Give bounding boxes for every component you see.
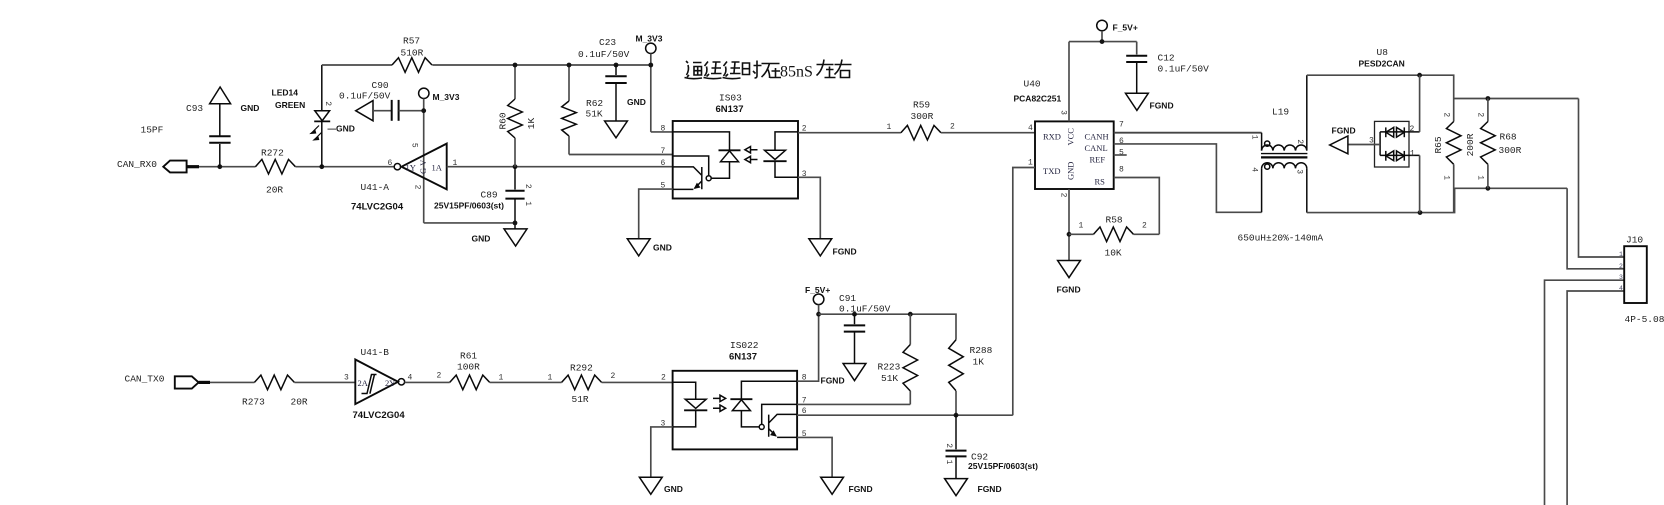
ground GND below C89 bbox=[472, 229, 528, 246]
svg-text:U8: U8 bbox=[1377, 47, 1389, 58]
wire R59 to U40 RXD bbox=[941, 123, 1035, 133]
svg-text:85nS: 85nS bbox=[780, 64, 813, 81]
ground GND below IS022 pin3 bbox=[639, 477, 682, 494]
svg-text:1: 1 bbox=[1079, 222, 1084, 231]
svg-text:GND: GND bbox=[653, 243, 672, 253]
capacitor C12 0.1uF/50V bbox=[1126, 53, 1209, 94]
svg-text:PCA82C251: PCA82C251 bbox=[1014, 94, 1062, 104]
svg-text:2: 2 bbox=[950, 123, 955, 132]
IS03 internal base node circle bbox=[706, 176, 711, 181]
svg-text:2: 2 bbox=[413, 185, 422, 190]
wire CANL U40 pin6 to L19 pin4 bbox=[1114, 144, 1262, 212]
svg-text:GND: GND bbox=[1066, 162, 1076, 180]
svg-text:1K: 1K bbox=[526, 118, 537, 130]
svg-text:R273: R273 bbox=[242, 397, 265, 408]
svg-text:1: 1 bbox=[523, 201, 532, 206]
power pin F_5V+ bottom bbox=[805, 285, 830, 314]
IS03 internal transistor bbox=[673, 167, 702, 190]
wire IS03 pin2 to R59 bbox=[798, 123, 901, 133]
wire U8 pin1 down to CANL rail bbox=[1419, 155, 1421, 212]
port connector CAN_RX0 bbox=[163, 161, 199, 173]
IS03 internal photodiode bbox=[673, 132, 741, 178]
svg-text:15PF: 15PF bbox=[141, 125, 164, 136]
wire IS03 pin3 to FGND bbox=[798, 177, 820, 239]
LED LED14 GREEN bbox=[272, 65, 355, 167]
svg-text:GND: GND bbox=[472, 234, 491, 244]
svg-text:M_3V3: M_3V3 bbox=[433, 92, 460, 102]
svg-text:VCC: VCC bbox=[1066, 128, 1076, 146]
svg-text:CANH: CANH bbox=[1085, 132, 1109, 142]
resistor R59 300R bbox=[901, 100, 941, 141]
capacitor C92 25V15PF/0603(st) bbox=[944, 415, 1038, 478]
wire R223 to IS022 pin7 bbox=[797, 403, 910, 405]
resistor R57 510R bbox=[392, 36, 432, 73]
svg-text:R58: R58 bbox=[1106, 215, 1123, 226]
transceiver U40 PCA82C251 box bbox=[1014, 79, 1114, 190]
svg-text:3: 3 bbox=[1294, 169, 1303, 174]
wire R61 to R292 bbox=[490, 374, 562, 383]
wire U41-B to R61 bbox=[405, 372, 450, 383]
svg-text:100R: 100R bbox=[457, 362, 480, 373]
svg-text:C12: C12 bbox=[1158, 53, 1175, 64]
U40 REF pin5 stub bbox=[1114, 154, 1127, 156]
svg-text:RS: RS bbox=[1095, 177, 1106, 187]
svg-text:20R: 20R bbox=[291, 397, 308, 408]
svg-text:650uH±20%-140mA: 650uH±20%-140mA bbox=[1238, 233, 1324, 244]
svg-text:GND: GND bbox=[241, 103, 260, 113]
wire CANH rail L19 pin2 to R65 bbox=[1307, 73, 1454, 99]
svg-text:10K: 10K bbox=[1105, 248, 1122, 259]
resistor R68 300R bbox=[1475, 99, 1521, 189]
svg-text:2A: 2A bbox=[358, 378, 369, 388]
svg-text:1: 1 bbox=[1475, 175, 1484, 180]
svg-text:FGND: FGND bbox=[978, 484, 1002, 494]
svg-text:RXD: RXD bbox=[1043, 132, 1061, 142]
IS022 internal enable pin7 wire bbox=[762, 404, 797, 424]
svg-text:0.1uF/50V: 0.1uF/50V bbox=[339, 91, 391, 102]
wire CAN_TX0 to R273 bbox=[210, 381, 254, 383]
svg-text:1: 1 bbox=[1410, 150, 1415, 159]
svg-text:25V15PF/0603(st): 25V15PF/0603(st) bbox=[434, 201, 504, 211]
node junction LED14 bbox=[319, 164, 324, 169]
svg-text:3: 3 bbox=[1059, 110, 1068, 115]
svg-text:1: 1 bbox=[887, 123, 892, 132]
svg-text:51K: 51K bbox=[881, 373, 898, 384]
wire branch to R68 top bbox=[1454, 96, 1579, 101]
wire IS022 pin6 row to TXD net bbox=[797, 413, 1013, 418]
svg-text:1: 1 bbox=[1442, 175, 1451, 180]
capacitor C23 0.1uF/50V bbox=[578, 37, 630, 121]
svg-text:4: 4 bbox=[1250, 167, 1259, 172]
resistor R58 10K bbox=[1069, 215, 1159, 259]
svg-text:M_3V3: M_3V3 bbox=[636, 34, 663, 44]
wire M_3V3 to ISO3 pin8 bbox=[651, 131, 673, 133]
wire U41-A pin2 to GND node bbox=[424, 221, 518, 226]
svg-text:—GND: —GND bbox=[328, 124, 355, 134]
svg-text:IS03: IS03 bbox=[719, 93, 742, 104]
op-amp U41-B inverter 74LVC2G04 bbox=[353, 347, 413, 421]
wire R57 net top bbox=[322, 64, 650, 66]
svg-text:1Y: 1Y bbox=[406, 163, 416, 173]
svg-text:0.1uF/50V: 0.1uF/50V bbox=[1158, 64, 1210, 75]
ground GND below IS03 pin5 bbox=[627, 239, 672, 256]
svg-text:C90: C90 bbox=[372, 80, 389, 91]
svg-text:2: 2 bbox=[323, 101, 332, 106]
node CAN_TX0 label bbox=[125, 374, 165, 385]
svg-text:FGND: FGND bbox=[1057, 285, 1081, 295]
svg-text:C93: C93 bbox=[186, 103, 203, 114]
svg-text:20R: 20R bbox=[266, 185, 283, 196]
wire U40 TXD to ISO22 pin6 net bbox=[1013, 168, 1035, 416]
ground FGND below C12 bbox=[1126, 93, 1174, 110]
svg-text:R288: R288 bbox=[970, 345, 993, 356]
wire R273 to U41-B bbox=[294, 374, 355, 383]
svg-text:LED14: LED14 bbox=[272, 88, 299, 98]
resistor R65 200R bbox=[1433, 99, 1476, 213]
IS022 internal base node circle bbox=[759, 424, 764, 429]
svg-text:R272: R272 bbox=[261, 148, 284, 159]
wire U8 pin3 to FGND bbox=[1348, 144, 1380, 146]
wire J10 pin4 down to edge bbox=[1567, 291, 1624, 505]
svg-text:J10: J10 bbox=[1626, 235, 1643, 246]
svg-text:F_5V+: F_5V+ bbox=[1113, 23, 1138, 33]
svg-text:1: 1 bbox=[1028, 159, 1033, 168]
svg-text:4: 4 bbox=[1619, 285, 1623, 292]
svg-text:74LVC2G04: 74LVC2G04 bbox=[351, 202, 404, 213]
svg-text:GREEN: GREEN bbox=[275, 100, 305, 110]
IS03 internal enable pin7 wire bbox=[673, 156, 709, 176]
capacitor C91 0.1uF/50V bbox=[839, 293, 891, 364]
wire IS03 pin5 to GND bbox=[639, 189, 673, 239]
svg-text:3: 3 bbox=[1619, 274, 1623, 281]
svg-text:51R: 51R bbox=[572, 394, 589, 405]
svg-text:2: 2 bbox=[1142, 222, 1147, 231]
resistor R292 51R bbox=[562, 363, 602, 406]
IS022 internal input LED bbox=[673, 382, 708, 427]
optocoupler IS03 6N137 box bbox=[673, 93, 798, 199]
wire M_3V3 power line through U41-A bbox=[421, 99, 426, 223]
svg-text:FGND: FGND bbox=[1150, 101, 1174, 111]
node junction R60/C89 bbox=[513, 164, 518, 169]
svg-text:1A: 1A bbox=[432, 163, 443, 173]
ground FGND below U40 bbox=[1057, 261, 1081, 295]
svg-text:C91: C91 bbox=[839, 293, 856, 304]
resistor R272 20R bbox=[255, 148, 295, 196]
svg-text:R223: R223 bbox=[878, 362, 901, 373]
wire branch to R68 bottom bbox=[1454, 186, 1567, 191]
svg-text:4: 4 bbox=[1028, 124, 1033, 133]
svg-text:2: 2 bbox=[437, 372, 442, 381]
IS022 pin numbers bbox=[661, 374, 807, 440]
resistor R288 1K bbox=[949, 340, 993, 415]
svg-text:5: 5 bbox=[410, 143, 419, 148]
svg-text:R59: R59 bbox=[913, 100, 930, 111]
svg-text:5: 5 bbox=[1119, 148, 1124, 157]
svg-text:R57: R57 bbox=[403, 36, 420, 47]
op-amp U41-A inverter 74LVC2G04 bbox=[351, 143, 458, 213]
svg-text:CANL: CANL bbox=[1085, 143, 1108, 153]
svg-text:FGND: FGND bbox=[1332, 126, 1356, 136]
wire CANH branch down to J10 pin1 bbox=[1579, 99, 1625, 258]
wire U41-A to ISO3 pin6 bbox=[447, 166, 673, 168]
IS03 pin numbers bbox=[661, 125, 807, 191]
power pin M_3V3 (right) bbox=[636, 34, 663, 132]
node CAN_RX0 label bbox=[117, 159, 157, 170]
wire R272 to U41-A bbox=[295, 166, 394, 168]
svg-text:R292: R292 bbox=[570, 363, 593, 374]
IS03 internal light arrows bbox=[745, 147, 758, 163]
IS022 internal transistor bbox=[769, 414, 797, 437]
svg-text:300R: 300R bbox=[1499, 145, 1522, 156]
svg-text:2: 2 bbox=[661, 374, 666, 383]
svg-text:GND: GND bbox=[627, 97, 646, 107]
wire IS022 pin5 to FGND bbox=[797, 437, 832, 477]
wire IS022 pin8 to F_5V+ rail bbox=[797, 312, 821, 381]
svg-text:8: 8 bbox=[1119, 166, 1124, 175]
svg-text:2: 2 bbox=[1619, 263, 1623, 270]
wire R62 to ISO3 pin7 bbox=[569, 154, 673, 156]
svg-text:1K: 1K bbox=[973, 357, 985, 368]
svg-text:R62: R62 bbox=[586, 98, 603, 109]
svg-text:R61: R61 bbox=[460, 351, 477, 362]
ESD diode U8 PESD2CAN bbox=[1359, 47, 1420, 167]
ground GND below C23 bbox=[605, 97, 646, 138]
svg-text:1: 1 bbox=[548, 374, 553, 383]
svg-text:IS022: IS022 bbox=[730, 340, 759, 351]
resistor R223 51K bbox=[878, 314, 918, 404]
svg-text:1: 1 bbox=[1619, 251, 1623, 258]
svg-text:0.1uF/50V: 0.1uF/50V bbox=[578, 49, 630, 60]
wire J10 pin3 down to edge bbox=[1545, 280, 1625, 505]
ground FGND left of U8 bbox=[1330, 126, 1356, 154]
svg-text:TXD: TXD bbox=[1043, 166, 1060, 176]
wire CANH U40 pin7 to L19 pin1 bbox=[1114, 132, 1262, 134]
svg-text:0.1uF/50V: 0.1uF/50V bbox=[839, 304, 891, 315]
svg-text:6: 6 bbox=[388, 159, 393, 168]
svg-text:FGND: FGND bbox=[821, 376, 845, 386]
svg-text:4: 4 bbox=[408, 374, 413, 383]
capacitor C89 25V15PF/0603(st) bbox=[434, 167, 532, 229]
svg-text:1: 1 bbox=[499, 374, 504, 383]
U40 pin numbers bbox=[1028, 110, 1124, 198]
svg-text:3: 3 bbox=[344, 374, 349, 383]
power pin M_3V3 (left) bbox=[419, 88, 460, 102]
capacitor C93 value 15PF bbox=[141, 103, 231, 167]
node junction C93 bbox=[217, 164, 222, 169]
svg-text:2: 2 bbox=[1442, 112, 1451, 117]
wire F_5V+ rail to U40 VCC and C12 bbox=[1069, 39, 1137, 121]
ground FGND below C91 bbox=[821, 364, 866, 386]
IS022 internal photodiode bbox=[730, 381, 797, 427]
svg-text:300R: 300R bbox=[911, 111, 934, 122]
ground GND above C93 bbox=[210, 87, 260, 113]
svg-text:1: 1 bbox=[1249, 135, 1258, 140]
svg-text:CAN_RX0: CAN_RX0 bbox=[117, 159, 157, 170]
port connector CAN_TX0 bbox=[175, 376, 210, 388]
svg-text:1: 1 bbox=[944, 460, 953, 465]
ground FGND below IS03 pin3 bbox=[809, 239, 857, 257]
svg-text:2: 2 bbox=[944, 443, 953, 448]
svg-text:FGND: FGND bbox=[833, 247, 857, 257]
resistor R62 51K bbox=[562, 63, 604, 155]
U40 pin names bbox=[1043, 128, 1109, 187]
wire CAN_RX0 to R272 bbox=[199, 166, 255, 168]
wire U8 pin2 up to CANH rail bbox=[1419, 75, 1421, 132]
wire F_5V+ rail to C91 R223 R288 bbox=[819, 312, 956, 340]
svg-text:2: 2 bbox=[1295, 139, 1304, 144]
wire IS022 pin3 to GND bbox=[651, 427, 673, 477]
inductor L19 common-mode choke bbox=[1238, 75, 1324, 243]
svg-text:PESD2CAN: PESD2CAN bbox=[1359, 59, 1405, 69]
svg-text:200R: 200R bbox=[1465, 133, 1476, 156]
svg-text:FGND: FGND bbox=[849, 484, 873, 494]
ground FGND below IS022 pin5 bbox=[821, 477, 873, 494]
connector J10 4P-5.08 bbox=[1619, 235, 1664, 326]
svg-text:2Y: 2Y bbox=[385, 378, 395, 388]
resistor R60 1K bbox=[497, 63, 537, 167]
svg-text:7: 7 bbox=[661, 147, 666, 156]
svg-text:2: 2 bbox=[1475, 112, 1484, 117]
svg-text:U41-B: U41-B bbox=[361, 347, 390, 358]
capacitor C90 0.1uF/50V with ground bbox=[339, 80, 424, 121]
svg-text:R65: R65 bbox=[1433, 136, 1444, 153]
svg-text:C23: C23 bbox=[599, 37, 616, 48]
svg-text:2: 2 bbox=[1410, 125, 1415, 134]
svg-text:C89: C89 bbox=[481, 190, 498, 201]
svg-text:6: 6 bbox=[661, 159, 666, 168]
svg-text:G V: G V bbox=[418, 159, 428, 174]
power pin F_5V+ top bbox=[1097, 20, 1138, 41]
svg-text:U41-A: U41-A bbox=[361, 182, 390, 193]
svg-text:7: 7 bbox=[1119, 121, 1124, 130]
resistor R61 100R bbox=[450, 351, 490, 390]
wire CANL rail L19 pin3 to R65 bbox=[1307, 188, 1455, 215]
IS03 internal input LED bbox=[763, 132, 798, 177]
svg-text:2: 2 bbox=[523, 184, 532, 189]
svg-text:GND: GND bbox=[664, 484, 683, 494]
svg-text:R68: R68 bbox=[1500, 132, 1517, 143]
svg-text:74LVC2G04: 74LVC2G04 bbox=[353, 410, 406, 421]
svg-text:CAN_TX0: CAN_TX0 bbox=[125, 374, 165, 385]
svg-text:6N137: 6N137 bbox=[729, 352, 757, 363]
wire U40 RS pin8 to R58 bbox=[1114, 178, 1160, 235]
wire CANL branch down to J10 pin2 bbox=[1567, 188, 1624, 268]
svg-text:6N137: 6N137 bbox=[716, 104, 744, 115]
svg-text:REF: REF bbox=[1090, 155, 1106, 165]
svg-text:U40: U40 bbox=[1024, 79, 1041, 90]
svg-text:2: 2 bbox=[1059, 193, 1068, 198]
svg-text:4P-5.08: 4P-5.08 bbox=[1625, 314, 1664, 325]
text Chinese annotation 通延延时在85nS左右 bbox=[685, 61, 782, 79]
optocoupler IS022 6N137 box bbox=[673, 340, 798, 449]
svg-text:L19: L19 bbox=[1272, 107, 1289, 118]
svg-text:2: 2 bbox=[611, 372, 616, 381]
wire U40 GND pin2 down bbox=[1067, 189, 1072, 261]
svg-text:8: 8 bbox=[661, 125, 666, 134]
svg-text:51K: 51K bbox=[586, 109, 603, 120]
resistor R273 20R bbox=[242, 375, 308, 407]
svg-text:R60: R60 bbox=[497, 112, 508, 129]
ground FGND below C92 bbox=[945, 479, 1002, 496]
svg-text:25V15PF/0603(st): 25V15PF/0603(st) bbox=[968, 461, 1038, 471]
wire R292 to ISO22 pin2 bbox=[602, 372, 673, 382]
IS022 internal light arrows bbox=[713, 395, 726, 411]
